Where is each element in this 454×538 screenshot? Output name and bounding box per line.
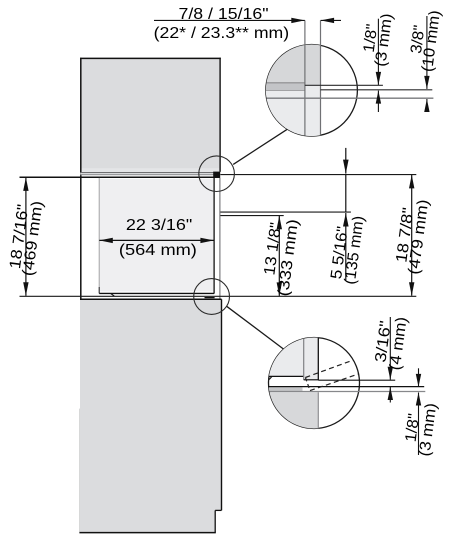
gap line C — [267, 97, 434, 99]
niche right inner wall — [213, 178, 215, 294]
gap line A — [305, 84, 383, 86]
leader line bottom — [227, 306, 284, 349]
dimension 3/16" (4 mm) bottom — [372, 314, 411, 403]
gap line C2 — [269, 391, 425, 393]
dimension 1/8" (3 mm) top — [359, 11, 396, 112]
niche top edge + left extension — [20, 176, 214, 178]
niche left inner wall — [98, 178, 100, 287]
door top edge line — [269, 375, 304, 377]
strip right line — [317, 338, 319, 381]
niche right outer wall — [219, 178, 221, 299]
strip left line — [303, 339, 305, 380]
svg-text:(22* / 23.3** mm): (22* / 23.3** mm) — [154, 25, 290, 42]
bottom extension line (full width) — [20, 295, 417, 297]
dimension 18 7/8" (479 mm) — [392, 175, 432, 296]
door corner bevel — [269, 376, 272, 379]
dimension 7/8 / 15/16" top — [154, 6, 341, 42]
dimension 13 1/8" (333 mm) — [259, 216, 302, 298]
strip bottom line — [304, 379, 319, 381]
niche left inner wall lower dark part — [98, 287, 100, 293]
dimension 1/8" (3 mm) bottom — [401, 368, 440, 457]
svg-text:(564 mm): (564 mm) — [119, 242, 197, 259]
top trim line 2 — [80, 174, 213, 176]
gap line B2 — [268, 386, 424, 388]
niche bottom edge — [99, 292, 214, 294]
leader line top — [233, 129, 287, 164]
svg-text:7/8 / 15/16": 7/8 / 15/16" — [179, 6, 269, 23]
extension line 5 5/16 bottom — [220, 211, 351, 213]
gap line B — [321, 89, 433, 91]
extension line 13 1/8 top — [220, 215, 283, 217]
detail circle bottom (magnified door gap) — [266, 337, 425, 429]
corner seal square — [213, 172, 220, 178]
dimension 5 5/16" (135 mm) — [328, 148, 368, 286]
cabinet left edge wall — [80, 58, 82, 410]
svg-text:22 3/16": 22 3/16" — [126, 217, 193, 234]
cabinet bottom panel — [79, 299, 221, 532]
magnified gap left line — [304, 20, 306, 135]
dimension 18 7/16" (469 mm) left — [6, 177, 46, 295]
dimension 22 3/16" (564 mm) — [99, 217, 214, 259]
niche top extension line right (18 7/8 top) — [220, 174, 416, 176]
detail marker circle top — [199, 156, 235, 192]
dimension 3/8" (10 mm) top — [406, 8, 444, 112]
cabinet top panel — [80, 58, 221, 173]
dashed door pivot edge — [305, 378, 310, 391]
dashed door open bottom — [310, 374, 358, 391]
niche cavity fill — [99, 179, 213, 292]
niche bottom step detail — [111, 294, 114, 296]
dashed door open top — [305, 360, 353, 377]
top trim line 1 — [80, 172, 213, 174]
gap line D — [318, 379, 395, 381]
detail marker circle bottom — [194, 279, 230, 315]
magnified gap right line — [320, 20, 322, 135]
cabinet left edge lower (gray) — [79, 409, 81, 533]
detail circle top (magnified top gap) — [263, 20, 433, 136]
oven bottom front edge detail — [205, 297, 215, 299]
top trim strip — [80, 173, 213, 174]
